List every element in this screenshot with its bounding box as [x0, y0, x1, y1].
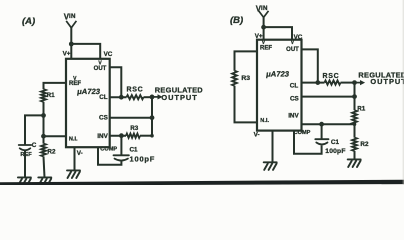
svg-text:N.I.: N.I. — [260, 118, 269, 124]
wire N.I. tap to N.I. pin (A) — [44, 135, 67, 137]
wire C1 to COMP pin (B) — [294, 131, 322, 154]
V IN arrow chevron (B) — [259, 11, 269, 18]
svg-text:V-: V- — [77, 150, 83, 157]
V IN arrow chevron (A) — [66, 21, 76, 28]
wire CREF to ground (A) — [24, 151, 26, 178]
svg-text:REF: REF — [260, 45, 272, 51]
svg-text:CL: CL — [290, 82, 299, 89]
resistor RSC (A) — [127, 95, 144, 99]
scan artifact: bottom black rule — [0, 180, 404, 186]
scan artifact: right edge shadow — [403, 0, 404, 185]
svg-text:CL: CL — [99, 94, 108, 101]
wire R2 to ground (B) — [354, 151, 356, 159]
svg-text:RSC: RSC — [127, 87, 144, 94]
wire INV node to C1 (A) — [120, 136, 122, 155]
svg-text:R1: R1 — [357, 106, 366, 113]
svg-text:VIN: VIN — [64, 12, 76, 21]
ground V- (A) — [67, 170, 80, 178]
wire V IN to VC pin (B) — [264, 27, 292, 40]
svg-text:R2: R2 — [360, 141, 369, 148]
wire VOUT pin to CL node (A) — [110, 67, 122, 97]
ground R2 (B) — [348, 159, 361, 167]
wire CS pin to output column (B) — [302, 96, 355, 98]
svg-text:R2: R2 — [47, 149, 56, 156]
wire output node down (A) — [151, 97, 153, 136]
svg-text:N.I.: N.I. — [69, 137, 78, 143]
node INV/C1 junction (B) — [319, 122, 324, 127]
wire output node down (B) — [354, 83, 356, 111]
resistor R1 (B) — [352, 110, 357, 124]
wire CL pin to RSC (B) — [302, 82, 325, 84]
wire INV pin to R1/R2 junction (B) — [302, 123, 355, 125]
node V IN junction (B) — [261, 25, 266, 30]
resistor R3 (A) — [126, 134, 140, 138]
output arrow (B) — [355, 80, 366, 85]
svg-text:VIN: VIN — [256, 4, 268, 13]
ground CREF (A) — [18, 177, 31, 185]
wire CL pin to RSC (A) — [110, 96, 127, 98]
ground V- (B) — [264, 162, 277, 170]
wire CS pin to output column (A) — [110, 117, 152, 119]
svg-text:C: C — [32, 142, 37, 149]
wire RSC to output node (A) — [144, 96, 153, 98]
node INV/C1 junction (A) — [119, 133, 124, 138]
svg-text:V-: V- — [254, 132, 260, 139]
svg-text:C1: C1 — [130, 147, 139, 154]
wire V- pin to ground (B) — [272, 131, 274, 163]
node CS junction (A) — [150, 115, 155, 120]
svg-text:CS: CS — [99, 115, 108, 122]
resistor R2 (B) — [352, 138, 357, 151]
wire V- pin to ground (A) — [74, 147, 76, 170]
capacitor CREF (A) — [19, 145, 32, 150]
wire INV node to C1 (B) — [321, 124, 323, 139]
wire C1 to COMP pin (A) — [98, 147, 121, 165]
node VOUT/CL junction (A) — [119, 95, 124, 100]
wire VOUT pin to CL node (B) — [302, 49, 318, 82]
svg-text:μA723: μA723 — [77, 87, 101, 96]
svg-text:CS: CS — [290, 95, 299, 102]
wire R1 to R2 (A) — [43, 102, 45, 144]
node regulated output (A) — [150, 95, 155, 100]
resistor R2 (A) — [41, 144, 46, 157]
wire R3 to output column (A) — [140, 135, 152, 137]
wire V IN to V+ pin (A) — [70, 28, 72, 59]
capacitor C1 (A) — [114, 155, 129, 160]
wire R1 to R2 (B) — [354, 124, 356, 137]
svg-text:OUT: OUT — [94, 66, 107, 72]
wire R3 to N.I. pin (B) — [235, 86, 258, 123]
svg-text:INV: INV — [97, 133, 108, 140]
op-amp regulator U2 uA723 box (B) — [257, 40, 302, 131]
node regulated output (B) — [352, 80, 357, 85]
svg-text:VC: VC — [104, 51, 113, 58]
wire junction to CREF (A) — [25, 115, 44, 144]
node CS junction (B) — [352, 94, 357, 99]
svg-text:R1: R1 — [47, 92, 56, 99]
svg-text:V+: V+ — [63, 51, 71, 58]
svg-text:OUTPUT: OUTPUT — [161, 93, 197, 102]
svg-text:100pF: 100pF — [130, 154, 156, 163]
svg-text:100pF: 100pF — [325, 148, 345, 155]
output arrow (A) — [152, 94, 163, 99]
svg-text:INV: INV — [288, 112, 299, 119]
wire VREF pin to R1 (A) — [44, 83, 67, 89]
node R1/R2/CREF junction (A) — [41, 113, 46, 118]
svg-text:COMP: COMP — [100, 147, 117, 153]
svg-text:REF: REF — [20, 152, 32, 158]
node N.I. tap (A) — [41, 134, 46, 139]
wire V IN to VC pin (A) — [71, 44, 100, 59]
wire V IN to V+ pin (B) — [263, 17, 265, 40]
op-amp regulator U1 uA723 box (A) — [66, 59, 110, 147]
wire R2 to ground (A) — [44, 156, 45, 177]
node R3/column junction (A) — [150, 134, 154, 138]
capacitor C1 (B) — [315, 139, 328, 144]
svg-text:(B): (B) — [230, 15, 243, 26]
svg-text:μA723: μA723 — [266, 70, 290, 79]
wire RSC to output node (B) — [341, 82, 355, 84]
svg-text:COMP: COMP — [294, 130, 311, 136]
svg-text:RSC: RSC — [323, 73, 340, 80]
wire VREF pin to R3 (B) — [235, 51, 258, 70]
resistor RSC (B) — [325, 81, 341, 85]
node VOUT/CL junction (B) — [315, 80, 320, 85]
svg-text:R3: R3 — [130, 125, 139, 132]
node V IN junction (A) — [69, 42, 74, 47]
node R1/R2/INV junction (B) — [353, 122, 357, 126]
svg-text:OUTPUT: OUTPUT — [370, 77, 404, 86]
svg-text:R3: R3 — [241, 75, 250, 82]
svg-text:OUT: OUT — [286, 47, 299, 53]
resistor R1 (A) — [41, 89, 46, 102]
svg-text:(A): (A) — [22, 16, 35, 27]
wire INV pin to R3 (A) — [110, 135, 126, 137]
resistor R3 (B) — [232, 71, 237, 86]
svg-text:C1: C1 — [331, 139, 340, 146]
ground R2 (A) — [38, 177, 51, 185]
